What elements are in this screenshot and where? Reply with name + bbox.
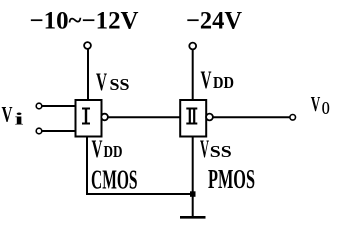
wire: bottom rail to ground junction <box>86 193 193 195</box>
inverting output bubble of block I <box>101 114 108 121</box>
svg-text:−24V: −24V <box>186 8 242 35</box>
block II (PMOS inverter stage) <box>180 100 206 137</box>
wire: block I output to block II input <box>108 116 181 118</box>
pin label VDD (block I supply pin) <box>92 136 123 163</box>
svg-text:V: V <box>92 136 103 163</box>
terminal: VSS supply input <box>84 42 91 49</box>
wire: block II output to Vo terminal <box>213 116 290 118</box>
block I (CMOS inverter stage) <box>76 100 102 137</box>
svg-text:i: i <box>15 110 25 129</box>
junction: bottom rail joins ground wire <box>190 191 196 197</box>
terminal: Vi input upper <box>36 103 42 109</box>
svg-text:V: V <box>2 102 13 127</box>
wire: lower input to block I <box>42 130 76 132</box>
svg-text:−10~−12V: −10~−12V <box>30 8 139 35</box>
wire: upper input to block I <box>42 105 76 107</box>
svg-text:V: V <box>96 69 107 96</box>
pin label VSS (block II supply pin) <box>200 136 232 163</box>
svg-text:V: V <box>201 67 212 94</box>
wire: VDD supply terminal to block II top <box>192 50 194 100</box>
label Vo (output voltage) <box>311 92 330 118</box>
svg-text:PMOS: PMOS <box>208 164 255 194</box>
svg-text:CMOS: CMOS <box>91 165 138 195</box>
inverting output bubble of block II <box>206 114 213 121</box>
ground symbol <box>180 216 206 219</box>
svg-text:V: V <box>311 92 321 116</box>
wire: block II bottom to ground <box>192 137 194 218</box>
terminal: VDD supply input <box>189 43 196 50</box>
svg-text:SS: SS <box>110 75 130 94</box>
pin label VDD (block II supply pin) <box>201 67 235 94</box>
label Vi (input voltage) <box>2 102 25 129</box>
svg-text:O: O <box>322 98 330 118</box>
svg-text:V: V <box>200 136 209 163</box>
svg-text:SS: SS <box>210 142 232 161</box>
wire: VSS supply terminal to block I top <box>87 49 89 100</box>
pin label VSS (block I supply pin) <box>96 69 130 96</box>
wire: block I bottom to bottom rail <box>86 137 88 195</box>
svg-text:DD: DD <box>104 142 123 161</box>
terminal: Vi input lower <box>36 128 42 134</box>
terminal: Vo output <box>290 115 296 121</box>
svg-text:DD: DD <box>213 73 234 92</box>
